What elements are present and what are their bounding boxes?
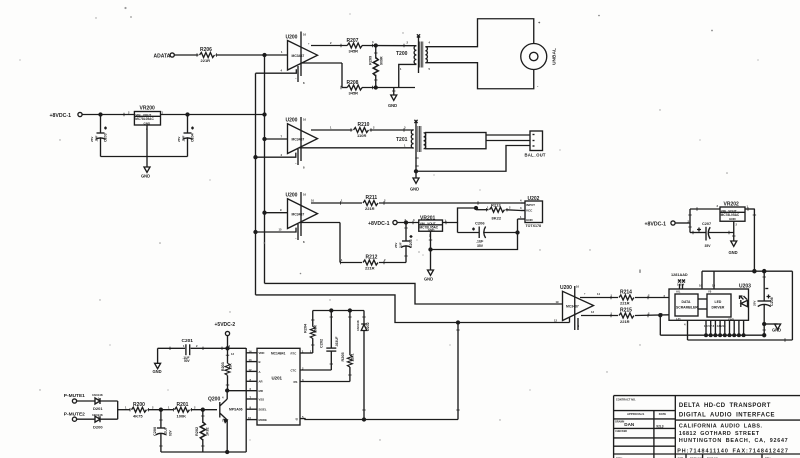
svg-text:2: 2 (330, 41, 332, 45)
svg-text:C200: C200 (153, 427, 157, 436)
svg-text:3: 3 (372, 40, 374, 44)
svg-text:R200: R200 (133, 402, 145, 408)
svg-text:VR200: VR200 (140, 106, 156, 112)
svg-text:INPUT: INPUT (526, 203, 535, 207)
svg-text:CHECKED: CHECKED (615, 430, 627, 433)
svg-text:221R: 221R (620, 300, 630, 305)
svg-text:8: 8 (303, 81, 305, 85)
svg-text:50V: 50V (184, 359, 191, 363)
svg-text:Y0: Y0 (708, 290, 712, 294)
svg-text:D202: D202 (366, 322, 370, 331)
svg-text:−: − (295, 162, 297, 165)
svg-text:C204: C204 (191, 133, 195, 142)
svg-text:8: 8 (303, 240, 305, 244)
svg-text:909R: 909R (380, 56, 384, 65)
svg-text:63V: 63V (169, 429, 173, 436)
svg-text:GND: GND (410, 187, 419, 192)
svg-text:APPROVALS: APPROVALS (627, 412, 644, 416)
svg-text:221R: 221R (365, 206, 375, 211)
svg-text:ADATA: ADATA (154, 53, 171, 59)
svg-text:2: 2 (373, 126, 375, 130)
svg-text:DELTA HD-CD TRANSPORT: DELTA HD-CD TRANSPORT (679, 403, 771, 409)
svg-text:GND: GND (428, 228, 436, 232)
svg-text:+8VDC-1: +8VDC-1 (368, 221, 390, 227)
svg-text:R209: R209 (369, 56, 373, 65)
svg-text:1: 1 (183, 344, 185, 348)
svg-text:P-MUTE2: P-MUTE2 (64, 411, 85, 417)
svg-text:R208: R208 (347, 80, 359, 86)
svg-text:CALIFORNIA AUDIO LABS.: CALIFORNIA AUDIO LABS. (679, 424, 763, 430)
svg-text:R211: R211 (366, 195, 378, 201)
svg-text:RS: RS (294, 380, 298, 384)
svg-text:UNBAL: UNBAL (552, 48, 558, 65)
svg-text:−: − (295, 237, 297, 240)
svg-text:U200: U200 (286, 35, 298, 41)
svg-text:8: 8 (578, 324, 580, 328)
svg-text:R201: R201 (177, 402, 189, 408)
svg-text:+8VDC-1: +8VDC-1 (50, 113, 72, 119)
svg-text:−: − (295, 77, 297, 80)
svg-text:15: 15 (279, 228, 282, 232)
svg-text:MC3487: MC3487 (292, 54, 305, 58)
svg-text:1N4148: 1N4148 (92, 393, 103, 397)
svg-text:MODE: MODE (259, 418, 268, 422)
svg-text:GND: GND (424, 277, 433, 282)
svg-text:4: 4 (281, 69, 283, 73)
svg-text:Q: Q (296, 417, 299, 421)
svg-text:4K75: 4K75 (133, 413, 143, 418)
svg-text:3: 3 (520, 206, 522, 210)
svg-text:C203: C203 (104, 133, 108, 142)
svg-text:DIGITAL AUDIO INTERFACE: DIGITAL AUDIO INTERFACE (679, 413, 775, 419)
svg-text:1: 1 (404, 144, 406, 148)
svg-text:10: 10 (248, 416, 251, 420)
svg-text:14: 14 (712, 284, 715, 288)
svg-text:1: 1 (400, 67, 402, 71)
svg-text:MC3487: MC3487 (292, 138, 305, 142)
svg-text:+5VDC-2: +5VDC-2 (215, 322, 236, 328)
svg-text:12: 12 (554, 319, 557, 323)
svg-text:C207: C207 (702, 222, 711, 226)
svg-text:P-MUTE1: P-MUTE1 (64, 393, 85, 399)
svg-text:4: 4 (222, 396, 224, 400)
svg-text:CONTRACT NO.: CONTRACT NO. (616, 398, 636, 402)
svg-text:100K: 100K (177, 413, 187, 418)
svg-text:19: 19 (556, 300, 559, 304)
svg-text:C201: C201 (182, 338, 194, 344)
svg-text:R207: R207 (347, 38, 359, 44)
svg-text:2: 2 (196, 344, 198, 348)
svg-text:GND: GND (526, 218, 534, 222)
svg-text:12: 12 (249, 368, 252, 372)
svg-text:VIN VOUT: VIN VOUT (135, 113, 151, 117)
svg-text:8K22: 8K22 (492, 215, 502, 220)
svg-text:R206: R206 (200, 47, 212, 53)
svg-text:5: 5 (429, 67, 431, 71)
svg-text:4: 4 (429, 41, 431, 45)
svg-text:VCC: VCC (526, 209, 533, 213)
svg-text:RTC: RTC (291, 351, 297, 355)
svg-text:1UF: 1UF (399, 242, 403, 248)
svg-text:221R: 221R (620, 319, 630, 324)
svg-text:22K1: 22K1 (351, 353, 355, 361)
svg-text:BAL_OUT: BAL_OUT (525, 153, 546, 158)
svg-text:16: 16 (303, 118, 306, 122)
svg-text:1: 1 (330, 126, 332, 130)
svg-text:345R: 345R (349, 49, 359, 54)
svg-text:+: + (584, 293, 586, 296)
svg-text:R210: R210 (358, 122, 370, 128)
svg-text:GND: GND (144, 121, 152, 125)
svg-text:GND: GND (153, 369, 162, 374)
svg-text:.47UF: .47UF (164, 427, 168, 436)
svg-text:R212: R212 (366, 255, 378, 261)
svg-text:35V: 35V (477, 244, 484, 248)
svg-text:GND: GND (729, 250, 738, 255)
svg-text:B: B (259, 360, 261, 364)
svg-text:4: 4 (281, 153, 283, 157)
svg-text:L/O: L/O (676, 317, 680, 321)
svg-text:7: 7 (281, 135, 283, 139)
svg-text:221R: 221R (201, 58, 211, 63)
svg-text:25V: 25V (177, 137, 181, 142)
svg-text:14: 14 (227, 344, 230, 348)
svg-text:DATE: DATE (659, 412, 667, 416)
svg-text:345R: 345R (349, 91, 359, 96)
svg-text:1: 1 (341, 258, 343, 262)
svg-text:.1UF: .1UF (95, 135, 99, 142)
svg-text:GND: GND (729, 217, 737, 221)
svg-text:VR202: VR202 (724, 202, 740, 208)
svg-text:R213: R213 (491, 203, 501, 208)
svg-text:16014: 16014 (677, 283, 685, 287)
svg-text:C208: C208 (770, 297, 774, 306)
svg-text:9: 9 (280, 208, 282, 212)
svg-text:2: 2 (152, 406, 154, 410)
svg-text:13: 13 (591, 310, 594, 314)
svg-text:1K82: 1K82 (206, 427, 210, 436)
svg-text:2: 2 (194, 406, 196, 410)
svg-text:A/L: A/L (676, 290, 681, 294)
svg-text:LED: LED (715, 300, 722, 304)
svg-text:U202: U202 (528, 196, 540, 202)
svg-text:25V: 25V (394, 243, 398, 248)
svg-text:660K: 660K (314, 324, 318, 333)
svg-text:110R: 110R (357, 133, 366, 138)
svg-text:.1UF: .1UF (476, 240, 483, 244)
svg-text:CTC: CTC (291, 368, 297, 372)
svg-text:3: 3 (146, 127, 148, 131)
svg-text:25V: 25V (753, 301, 757, 306)
svg-text:14: 14 (249, 349, 252, 353)
svg-text:D200: D200 (93, 425, 103, 430)
svg-text:TOTX178: TOTX178 (526, 224, 542, 228)
svg-text:8: 8 (303, 166, 305, 170)
svg-text:3: 3 (717, 204, 719, 208)
svg-text:+: + (538, 20, 541, 25)
svg-text:1: 1 (125, 406, 127, 410)
svg-text:2: 2 (407, 41, 409, 45)
svg-text:C202: C202 (319, 339, 323, 348)
svg-text:HUNTINGTON BEACH, CA, 92647: HUNTINGTON BEACH, CA, 92647 (679, 438, 789, 444)
svg-text:16: 16 (303, 193, 306, 197)
svg-text:R214: R214 (620, 290, 632, 296)
svg-text:15K: 15K (229, 363, 233, 370)
svg-text:1: 1 (487, 206, 489, 210)
svg-text:MPSA06: MPSA06 (229, 408, 243, 412)
svg-text:AR: AR (259, 380, 263, 384)
svg-text:+: + (308, 43, 310, 46)
svg-text:+8VDC-1: +8VDC-1 (645, 222, 667, 228)
svg-text:S/SEL: S/SEL (259, 408, 267, 412)
svg-text:GND: GND (728, 318, 734, 322)
svg-text:13: 13 (231, 352, 234, 356)
svg-text:DAN: DAN (624, 422, 635, 427)
svg-text:DRIVER: DRIVER (712, 306, 725, 310)
svg-text:16: 16 (303, 33, 306, 37)
svg-text:.1UF: .1UF (182, 135, 186, 142)
svg-text:T201: T201 (396, 137, 408, 143)
svg-text:GND: GND (141, 174, 150, 179)
svg-text:1 3 5 7 8 4 131214: 1 3 5 7 8 4 131214 (704, 324, 726, 328)
svg-text:92L3: 92L3 (656, 425, 663, 429)
svg-text:DATA: DATA (682, 300, 691, 304)
svg-text:1281AAD: 1281AAD (671, 273, 688, 277)
svg-text:.033UF: .033UF (335, 336, 339, 347)
svg-text:MC3487: MC3487 (292, 213, 305, 217)
svg-text:PH:7148411140 FAX:7148412427: PH:7148411140 FAX:7148412427 (677, 448, 789, 454)
svg-text:16: 16 (699, 284, 702, 288)
svg-text:U203: U203 (739, 284, 751, 290)
svg-text:C206: C206 (475, 221, 485, 226)
svg-text:4: 4 (520, 199, 522, 203)
svg-text:A: A (259, 370, 261, 374)
svg-text:-: - (537, 83, 539, 88)
svg-text:C205: C205 (409, 239, 413, 248)
svg-text:1: 1 (281, 50, 283, 54)
svg-text:16812 GOTHARD STREET: 16812 GOTHARD STREET (679, 431, 760, 437)
svg-text:GND: GND (388, 103, 397, 108)
svg-text:1N4148: 1N4148 (356, 320, 360, 331)
svg-text:U200: U200 (286, 193, 298, 199)
svg-text:25V: 25V (90, 137, 94, 142)
svg-text:14: 14 (597, 292, 600, 296)
svg-text:2: 2 (509, 206, 511, 210)
svg-text:R215: R215 (620, 308, 632, 314)
svg-text:T200: T200 (396, 51, 408, 57)
svg-text:MC3487: MC3487 (566, 305, 579, 309)
svg-text:2: 2 (736, 223, 738, 227)
svg-text:U200: U200 (286, 118, 298, 124)
svg-text:R205: R205 (341, 352, 345, 361)
svg-text:U200: U200 (560, 285, 572, 291)
svg-text:DRAWN: DRAWN (615, 421, 624, 424)
svg-text:16: 16 (576, 285, 579, 289)
svg-text:Q200: Q200 (208, 397, 220, 403)
svg-text:35V: 35V (705, 244, 712, 248)
svg-text:VSS: VSS (259, 397, 265, 401)
svg-text:R203: R203 (221, 362, 225, 371)
svg-text:MC14B41: MC14B41 (271, 352, 286, 356)
svg-text:MR: MR (259, 389, 263, 393)
svg-text:4: 4 (684, 323, 686, 327)
svg-text:R202: R202 (195, 427, 199, 436)
svg-text:221R: 221R (365, 266, 375, 271)
svg-text:10: 10 (311, 199, 314, 203)
svg-text:13: 13 (249, 358, 252, 362)
svg-text:VDD: VDD (259, 351, 265, 355)
svg-text:R204: R204 (304, 323, 308, 333)
svg-text:U201: U201 (272, 375, 283, 380)
svg-text:GND: GND (772, 328, 781, 333)
svg-text:1: 1 (168, 406, 170, 410)
svg-text:1: 1 (341, 199, 343, 203)
svg-text:D201: D201 (93, 406, 103, 411)
svg-text:SCRAMBLER: SCRAMBLER (676, 306, 698, 310)
